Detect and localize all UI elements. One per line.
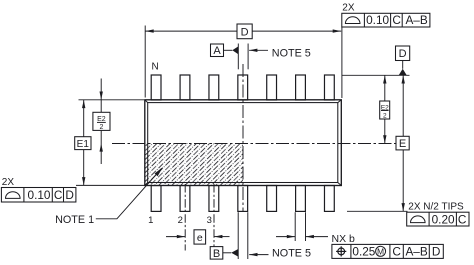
pin 4 (bottom) (238, 186, 248, 212)
svg-text:A–B: A–B (405, 244, 427, 258)
feature control frame 0.10 C A-B (top right) (342, 13, 430, 27)
svg-text:2X N/2 TIPS: 2X N/2 TIPS (408, 201, 464, 212)
svg-text:E: E (399, 138, 406, 150)
svg-text:D: D (65, 188, 74, 202)
svg-text:0.10: 0.10 (28, 188, 51, 202)
datum A (211, 44, 224, 57)
pin 6 edge extension lines (bottom) (294, 212, 296, 241)
svg-text:2: 2 (99, 124, 103, 131)
feature control frame 0.10 C D (left) (1, 188, 76, 203)
svg-text:C: C (458, 213, 467, 227)
svg-text:C: C (54, 188, 63, 202)
feature control frame position 0.25 M C A-B D (bottom) (332, 244, 443, 258)
pin 6 (top) (296, 75, 306, 100)
dimension E (right) (402, 75, 404, 136)
hatched pin-1 index area (NOTE 1) (145, 144, 243, 186)
pin 7 (top) (324, 75, 334, 100)
svg-text:NX b: NX b (332, 233, 356, 245)
svg-text:M: M (377, 247, 384, 257)
dimension E1 (left) (79, 99, 145, 101)
pin 5 (top) (267, 75, 277, 100)
svg-text:0.10: 0.10 (366, 13, 389, 27)
body corner chamfer marks (145, 100, 341, 186)
pin 2 centerline (bottom) (184, 184, 186, 251)
svg-text:NOTE 5: NOTE 5 (272, 47, 311, 59)
horizontal center axis (112, 143, 396, 145)
pin 3 centerline (bottom) (213, 184, 215, 251)
svg-text:0.25: 0.25 (352, 244, 375, 258)
re-draw hatch over pins in hatched zone (145, 144, 243, 186)
MMC modifier (376, 246, 386, 256)
svg-text:2: 2 (383, 112, 387, 119)
dimension D line (145, 30, 341, 32)
svg-text:0.20: 0.20 (432, 213, 455, 227)
svg-text:NOTE 1: NOTE 1 (55, 214, 94, 226)
pin 4 (top) (238, 75, 248, 100)
pin 7 (bottom) (324, 186, 334, 212)
pin 5 (bottom) (267, 186, 277, 212)
dimension D extension line right (341, 27, 343, 98)
svg-text:E1: E1 (77, 139, 90, 150)
svg-text:B: B (213, 248, 220, 260)
vertical center axis through pin 4 (242, 64, 244, 211)
svg-text:NOTE 5: NOTE 5 (272, 247, 311, 259)
feature control frame 0.20 C (bottom right) (407, 212, 469, 226)
dimension E2/2 (right) (384, 75, 386, 101)
pin 4 edge extension lines (bottom) (237, 212, 239, 259)
true position symbol (338, 248, 345, 255)
top pin tips extension line (right) (342, 74, 410, 76)
dimension E2/2 (left) (100, 79, 102, 100)
bottom pin tips extension line (right) (347, 210, 408, 212)
svg-text:E2: E2 (97, 116, 106, 123)
svg-text:N: N (152, 62, 159, 73)
datum B (210, 247, 223, 260)
NOTE 5 callout (top) (249, 49, 268, 51)
svg-text:2X: 2X (2, 177, 15, 188)
NOTE 5 callout (bottom) (249, 254, 268, 256)
pin 6 (bottom) (296, 186, 306, 212)
svg-text:D: D (432, 244, 441, 258)
pin 1 (bottom) (151, 186, 161, 212)
svg-text:1: 1 (148, 215, 153, 226)
datum D (top right) (396, 46, 410, 61)
pin 3 (bottom) (209, 186, 219, 212)
svg-text:A: A (213, 45, 221, 57)
pin 1 (top) (151, 75, 161, 100)
svg-text:D: D (399, 48, 407, 60)
svg-text:A–B: A–B (405, 13, 427, 27)
pin 2 (top) (180, 75, 190, 100)
svg-text:e: e (197, 232, 203, 244)
dimension b (lead width) (276, 236, 295, 238)
dimension e (pin pitch) (166, 236, 185, 238)
svg-text:2: 2 (178, 215, 183, 226)
svg-text:3: 3 (207, 215, 212, 226)
pin 2 (bottom) (180, 186, 190, 212)
svg-text:C: C (392, 244, 401, 258)
package body inner edge (148, 103, 338, 183)
package body outer outline (145, 100, 341, 186)
svg-text:2X: 2X (342, 2, 355, 13)
pin 3 (top) (209, 75, 219, 100)
svg-text:D: D (241, 26, 249, 38)
svg-text:C: C (392, 13, 401, 27)
pin 4 edge extension lines (top) (237, 44, 239, 70)
dimension label D (237, 24, 252, 39)
dimension D extension line left (144, 26, 146, 98)
